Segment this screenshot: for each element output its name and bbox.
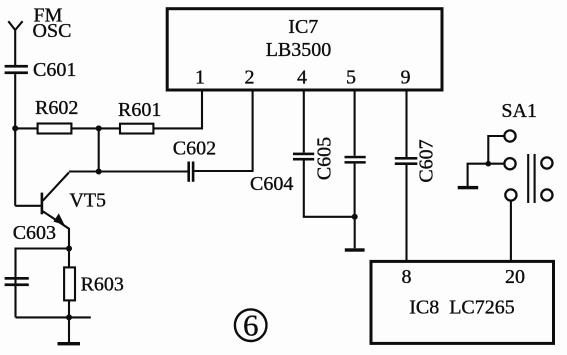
svg-text:5: 5 <box>346 67 356 89</box>
figure number 6 (circled) <box>235 308 267 343</box>
wire IC7 pin 4 to C604 cap <box>303 90 305 153</box>
wire emitter node to R603 <box>68 249 70 268</box>
wire R603 to bottom rail <box>68 300 70 317</box>
svg-text:9: 9 <box>401 67 411 89</box>
wire node A down to VT5 base <box>14 128 16 205</box>
resistor R603 <box>64 267 75 300</box>
svg-text:C601: C601 <box>33 59 76 81</box>
label VT5 <box>69 189 106 211</box>
svg-text:C603: C603 <box>13 222 56 244</box>
switch SA1 contact bottom-left <box>505 189 516 200</box>
label C603 <box>13 222 56 244</box>
wire IC7 pin 9 to C607 <box>405 90 407 157</box>
wire C607 to IC8 pin 8 <box>405 165 407 261</box>
wire SA1 bottom contact to IC8 pin 20 <box>510 201 512 262</box>
wire node B down to collector rail <box>98 128 100 171</box>
capacitor C607 <box>395 157 418 165</box>
antenna FM OSC <box>8 21 22 65</box>
bottom rail junction dot <box>66 314 72 320</box>
svg-text:2: 2 <box>245 67 255 89</box>
pin number 20 <box>505 266 525 288</box>
label IC8 LC7265 <box>409 297 515 319</box>
junction dot on collector rail <box>96 169 102 175</box>
svg-text:R602: R602 <box>35 97 78 119</box>
svg-text:20: 20 <box>505 266 525 288</box>
svg-text:R601: R601 <box>118 99 161 121</box>
bottom rail wire <box>16 316 91 318</box>
capacitor C603 <box>5 277 29 286</box>
svg-text:SA1: SA1 <box>501 100 537 122</box>
svg-text:C605: C605 <box>314 137 336 180</box>
svg-text:4: 4 <box>297 67 307 89</box>
pin number 5 <box>346 67 356 89</box>
wire node A to R602 <box>15 127 37 129</box>
svg-text:1: 1 <box>195 67 205 89</box>
ground (bottom left) <box>58 317 81 345</box>
capacitor C602 <box>187 162 194 182</box>
switch SA1 contact top-left <box>504 130 515 141</box>
transistor VT5 <box>15 173 69 249</box>
pin number 9 <box>401 67 411 89</box>
label R603 <box>81 274 124 296</box>
emitter junction dot <box>66 246 72 252</box>
label C607 (rotated) <box>416 139 438 182</box>
wire SA1 top contact to junction <box>488 136 504 164</box>
wire C605 cap down to ground node <box>354 164 356 217</box>
wire emitter node to C603 branch <box>16 249 70 318</box>
node A junction dot <box>12 125 18 131</box>
ground node junction dot <box>352 214 358 220</box>
ground (SA1) <box>458 186 479 189</box>
label IC7 <box>288 16 318 38</box>
wire SA1 mid contact to ground <box>468 164 505 186</box>
ground (under C605) <box>345 217 365 252</box>
capacitor C604 (pin 4) <box>293 153 314 161</box>
svg-text:C602: C602 <box>173 138 216 160</box>
label R601 <box>118 99 161 121</box>
label LB3500 <box>266 39 332 61</box>
pin number 1 <box>195 67 205 89</box>
wire VT5 collector rail <box>69 170 188 172</box>
switch SA1 contact mid-left <box>504 158 515 169</box>
svg-text:LB3500: LB3500 <box>266 39 332 61</box>
switch SA1 coupling bars <box>528 154 534 203</box>
label R602 <box>35 97 78 119</box>
svg-text:IC7: IC7 <box>288 16 318 38</box>
svg-text:R603: R603 <box>81 274 124 296</box>
IC8 box <box>371 261 554 343</box>
SA1 junction dot <box>486 161 492 167</box>
wire R602 to node B <box>71 127 98 129</box>
wire R601 to IC7 pin 1 <box>153 90 202 128</box>
label C602 <box>173 138 216 160</box>
label FM OSC <box>33 5 72 42</box>
pin number 4 <box>297 67 307 89</box>
switch SA1 contact bottom-right <box>541 189 552 200</box>
svg-text:IC8 LC7265: IC8 LC7265 <box>409 297 515 319</box>
switch SA1 contact mid-right <box>541 157 552 168</box>
wire C604 cap down to ground node <box>304 161 355 217</box>
label C604 <box>250 173 293 195</box>
node B junction dot <box>96 125 102 131</box>
pin number 2 <box>245 67 255 89</box>
resistor R602 <box>38 124 72 134</box>
label C605 (rotated) <box>314 137 336 180</box>
svg-text:8: 8 <box>402 266 412 288</box>
wire C601 to node A <box>14 74 16 128</box>
IC7 box <box>167 9 442 90</box>
wire IC7 pin 2 down to C602 node <box>194 90 252 171</box>
label SA1 <box>501 100 537 122</box>
svg-text:C604: C604 <box>250 173 293 195</box>
svg-text:VT5: VT5 <box>69 189 106 211</box>
capacitor C601 <box>5 65 28 74</box>
label C601 <box>33 59 76 81</box>
svg-text:C607: C607 <box>416 139 438 182</box>
resistor R601 <box>120 124 153 134</box>
svg-text:OSC: OSC <box>33 20 72 42</box>
wire IC7 pin 5 to C605 cap <box>354 90 356 156</box>
capacitor C605 (pin 5) <box>345 156 366 164</box>
wire node B to R601 <box>99 127 120 129</box>
pin number 8 <box>402 266 412 288</box>
svg-text:6: 6 <box>243 308 259 343</box>
